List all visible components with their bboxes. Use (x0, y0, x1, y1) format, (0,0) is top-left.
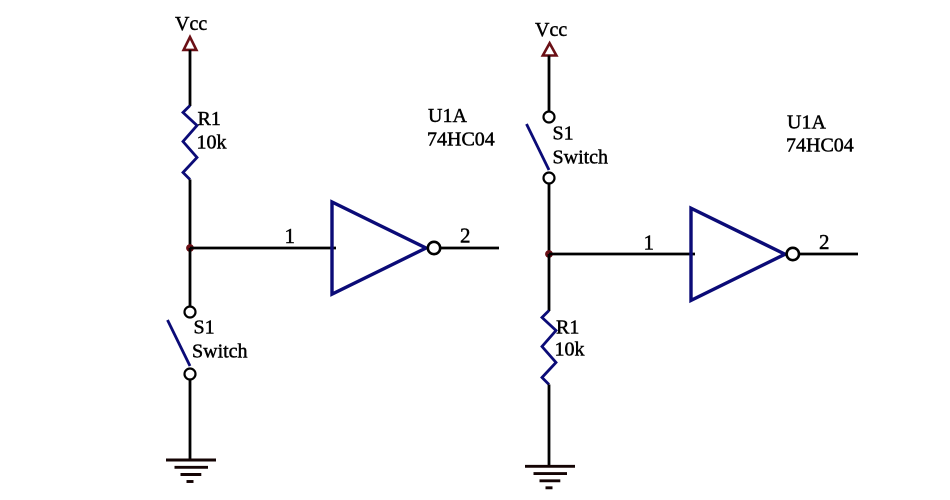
inverter output bubble (right) (787, 248, 799, 260)
svg-text:S1: S1 (194, 317, 215, 339)
op-amp U1A inverter triangle (left) (332, 202, 426, 294)
switch S1 blade (right) (527, 124, 550, 170)
wire Vcc to R1 (left) (189, 50, 192, 106)
svg-text:2: 2 (819, 230, 830, 254)
resistor R1 (left) (183, 106, 197, 180)
svg-text:S1: S1 (553, 123, 574, 145)
power symbol Vcc arrow (right) (543, 43, 557, 55)
svg-text:R1: R1 (198, 108, 221, 130)
wire inverter output (right) (800, 253, 859, 256)
svg-text:U1A: U1A (787, 112, 826, 134)
op-amp U1A inverter triangle (right) (691, 208, 785, 300)
inverter output bubble (left) (428, 242, 440, 254)
wire junction to R1 (right) (548, 254, 551, 311)
wire switch to junction (right) (548, 184, 551, 255)
wire junction to inverter input (left) (190, 247, 336, 250)
svg-text:2: 2 (460, 224, 471, 248)
switch S1 bottom terminal (right) (544, 173, 555, 184)
wire R1 to ground (right) (548, 385, 551, 467)
resistor R1 (right) (542, 311, 556, 385)
wire switch to ground (left) (189, 380, 192, 461)
junction node (left) (186, 244, 194, 252)
svg-text:74HC04: 74HC04 (427, 129, 495, 151)
svg-text:10k: 10k (197, 132, 227, 154)
wire junction to switch (left) (189, 248, 192, 307)
switch S1 blade (left) (168, 320, 191, 366)
svg-text:Switch: Switch (192, 341, 248, 363)
ground symbol (right) (525, 466, 575, 488)
ground symbol (left) (166, 460, 216, 482)
svg-text:Vcc: Vcc (175, 13, 207, 35)
svg-text:Vcc: Vcc (535, 19, 567, 41)
switch S1 top terminal (left) (185, 307, 196, 318)
power symbol Vcc arrow (left) (184, 37, 197, 50)
switch S1 bottom terminal (left) (185, 369, 196, 380)
wire Vcc to switch (right) (548, 56, 551, 112)
wire inverter output (left) (441, 247, 499, 250)
svg-text:U1A: U1A (428, 105, 467, 127)
svg-text:10k: 10k (555, 339, 585, 361)
svg-text:74HC04: 74HC04 (786, 135, 854, 157)
svg-text:R1: R1 (556, 317, 579, 339)
wire junction to inverter input (right) (549, 253, 695, 256)
switch S1 top terminal (right) (544, 112, 555, 123)
svg-text:1: 1 (644, 231, 655, 255)
junction node (right) (545, 250, 553, 258)
svg-text:Switch: Switch (553, 147, 609, 169)
svg-text:1: 1 (285, 224, 296, 248)
wire R1 to junction (left) (189, 180, 192, 249)
